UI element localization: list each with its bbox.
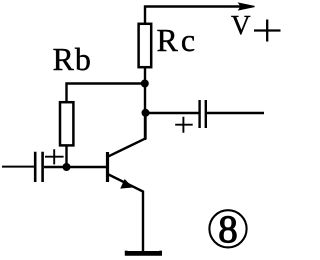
wire output lead (207, 112, 264, 114)
wire Rb to base node (65, 145, 67, 167)
wire V+ supply rail (145, 7, 241, 26)
capacitor C1 input (35, 152, 42, 182)
resistor Rc (139, 24, 152, 67)
capacitor C2 output (200, 100, 206, 128)
ground (125, 251, 162, 256)
wire input lead (2, 166, 34, 168)
transistor Q1 base bar (106, 152, 109, 182)
wire collector rail (144, 67, 146, 140)
resistor Rb (60, 102, 73, 145)
svg-text:8: 8 (218, 208, 238, 251)
V+ arrowhead (239, 3, 255, 9)
wire bias rail to Rb (67, 84, 147, 104)
node base junction (63, 163, 71, 171)
svg-text:Rb: Rb (53, 41, 92, 77)
C1 plus polarity mark (45, 149, 64, 164)
svg-text:V: V (231, 10, 251, 40)
Q1 emitter arrowhead (121, 180, 131, 188)
svg-text:Rc: Rc (157, 22, 199, 58)
C2 plus polarity mark (175, 117, 193, 133)
transistor Q1 emitter lead (108, 174, 144, 251)
wire C1 to base (44, 166, 107, 168)
node collector junction (142, 109, 150, 117)
figure number circle 8 (209, 210, 246, 247)
node bias junction (141, 80, 149, 88)
wire collector to C2 (146, 112, 199, 114)
transistor Q1 collector lead (108, 113, 146, 157)
